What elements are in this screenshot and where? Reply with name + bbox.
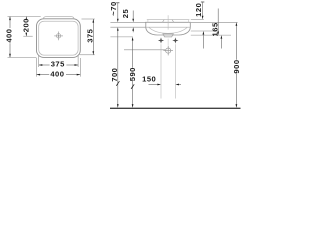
svg-text:375: 375 [51,59,65,68]
drain boss trapezoid (front view) [163,34,173,37]
dimension ~70 [109,1,119,22]
dimension 590 [128,37,137,108]
extension: dangling level line left [110,36,132,38]
faucet centerline [167,15,169,29]
dimension 165 partner arrow below [221,35,223,48]
dimension 400 left [5,17,14,58]
svg-text:120: 120 [194,3,203,17]
dimension 120 [194,2,205,19]
dimension 165 [210,9,219,37]
dimension 900 [232,22,241,108]
back rim left corner edge [147,20,149,23]
extension: shell bottom to right [191,34,231,36]
fixing point right (4-point star) [172,37,178,43]
extension lines below square (375 inner) [38,56,40,67]
dimension 400 bottom [37,69,81,78]
extension line bottom-left (left view) [8,56,37,58]
svg-text:590: 590 [128,67,137,81]
extension line right-bottom (for 375 right) [80,54,95,56]
basin outer rim (top view) [37,19,81,58]
svg-text:25: 25 [121,9,130,19]
extension tick center (for 200) [23,35,32,37]
svg-text:400: 400 [50,69,64,78]
svg-text:165: 165 [210,22,219,36]
rear deck edge (top view) [43,17,74,19]
dimension 700 [110,27,119,108]
extension lines below square (400 outer) [36,58,38,77]
drain center dot [58,35,59,36]
drain crosshair (top view) [54,32,63,41]
extension: rim band bottom to left [110,26,145,28]
drain outlet symbol (front view) [163,46,173,56]
extension: deck top to right [191,19,204,21]
dimension 150 with extension verticals [142,44,181,98]
dimension 200 left [21,17,30,37]
extension: shell shoulder to right [191,30,217,32]
extension: rim top to far right [191,21,238,23]
dimension 375 bottom [39,59,78,68]
extension line right-top (for 375 right) [82,18,95,20]
svg-text:375: 375 [85,28,94,42]
extension: rim top to left [110,21,145,23]
fixing point left (4-point star) [158,37,164,43]
svg-text:200: 200 [21,18,30,32]
extension: drain level to left [124,49,165,51]
dimension 120 partner arrow below [203,31,205,49]
extension line top-left (left view) [8,16,41,18]
svg-text:700: 700 [110,68,119,82]
svg-text:~70: ~70 [109,1,118,15]
back rim right corner edge [187,20,189,23]
floor line [110,107,241,109]
rim band bottom line (front view) [146,26,191,28]
dimension 375 right of square [85,19,94,55]
back rim line (front view) [147,19,190,21]
drain centerline lower [167,39,169,46]
tap platform slanted edges [162,20,173,23]
inner bowl arc (front view) [149,27,187,33]
svg-text:400: 400 [5,29,14,43]
dimension 25 [121,9,134,33]
basin shell (front view) [146,22,191,35]
svg-text:150: 150 [142,74,156,83]
basin inner rim (top view) [39,21,78,55]
svg-text:900: 900 [232,59,241,73]
